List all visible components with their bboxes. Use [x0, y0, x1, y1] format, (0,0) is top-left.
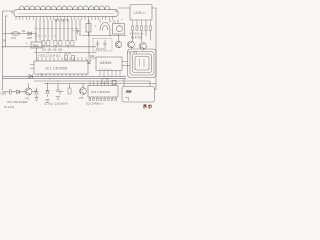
svg-text:IC2 CD4060: IC2 CD4060	[91, 90, 110, 94]
display tube DS1 body	[14, 10, 118, 17]
svg-text:9 10 11 12 13 14 15 1: 9 10 11 12 13 14 15 1	[38, 55, 61, 57]
loop inner bar 1	[139, 59, 141, 67]
small box U2	[86, 24, 91, 33]
svg-text:abcdefg: abcdefg	[35, 36, 57, 38]
svg-text:JS20: JS20	[126, 92, 132, 94]
text labels	[1, 11, 146, 109]
diode VD1	[17, 90, 26, 94]
svg-text:LED□□: LED□□	[135, 11, 146, 15]
transistor VT5	[80, 88, 87, 95]
svg-text:NE555: NE555	[100, 61, 112, 65]
transistor emitter arrows	[29, 47, 145, 95]
timer IC3 NE555 box	[96, 57, 122, 71]
diode VD6 on bus	[29, 75, 33, 79]
zener VS1	[35, 88, 39, 98]
transistor VT1	[25, 84, 37, 96]
dashed filter box	[93, 39, 112, 52]
capacitor C8	[76, 29, 79, 35]
counter IC2 CD4060 box	[88, 86, 118, 98]
svg-text:VD5: VD5	[27, 37, 32, 40]
IC1 top pins	[38, 57, 86, 61]
capacitor C6	[96, 40, 99, 48]
svg-text:IC1 CD4055: IC1 CD4055	[46, 67, 68, 71]
op IC1 CD4055 box	[34, 61, 88, 74]
transistor VT2	[128, 41, 135, 48]
svg-text:C2 0.1µ C3 10µ/16V: C2 0.1µ C3 10µ/16V	[44, 103, 68, 106]
wire to regulator	[35, 34, 37, 43]
ground G3	[56, 97, 60, 100]
display grid arcs	[19, 6, 110, 10]
IC1 left pins	[30, 65, 34, 69]
resistor column R7	[141, 26, 143, 31]
diode VD5	[28, 32, 32, 36]
svg-text:220V: 220V	[1, 93, 7, 96]
red watermark logo	[144, 105, 152, 109]
LED box bottom pins	[133, 20, 151, 26]
wire LED box to right rail	[152, 8, 156, 84]
junction dots	[2, 11, 117, 93]
wire left horizontal feed	[3, 33, 37, 35]
svg-text:VT5: VT5	[79, 97, 84, 100]
wire 555 to loop	[122, 62, 130, 87]
display pin ticks	[16, 17, 113, 20]
resistor R10	[68, 88, 71, 94]
capacitor C7	[103, 40, 106, 48]
resistor pair row	[42, 41, 74, 46]
capacitor C1 mains	[10, 89, 17, 94]
wire display to LED box	[119, 7, 131, 9]
svg-text:7805: 7805	[32, 44, 39, 48]
regulator IC4 7805	[31, 42, 42, 48]
IC1 bottom pins	[38, 74, 86, 76]
resistor column R5	[132, 26, 134, 31]
display feed wires	[80, 20, 118, 36]
resistor column R6	[136, 26, 138, 31]
inductor L1 arch	[100, 22, 110, 30]
svg-text:12345: 12345	[99, 69, 112, 71]
svg-text:VD1~VD4 1N4007: VD1~VD4 1N4007	[7, 101, 28, 104]
LED indicator box	[130, 5, 152, 21]
svg-text:C4 C5: C4 C5	[64, 53, 71, 56]
svg-text:C1 0.47µ: C1 0.47µ	[4, 106, 15, 109]
transistor VT4	[115, 41, 121, 47]
wire stubs bottom components	[48, 84, 84, 89]
capacitor C3 electrolytic	[56, 87, 63, 95]
wire column x89	[89, 20, 96, 58]
long bus 1	[3, 75, 127, 77]
loop inner bar 2	[143, 59, 145, 67]
wire mains left	[3, 91, 10, 93]
IC2 top pins	[90, 81, 116, 86]
svg-text:BT 5870: BT 5870	[55, 18, 69, 22]
bus loop rect 1	[135, 57, 149, 71]
pin junction ticks	[35, 28, 77, 30]
long bus 3	[34, 81, 150, 87]
resistor column R9	[150, 26, 152, 31]
capacitor C5 box	[72, 56, 75, 61]
wire left rail 2	[6, 16, 8, 47]
IC2 bottom pins	[89, 97, 117, 100]
svg-text:IC2 CD4060 □□: IC2 CD4060 □□	[86, 103, 104, 106]
bus rail A y=46.8	[3, 46, 97, 48]
svg-text:4.7k: 4.7k	[11, 36, 17, 40]
small box J2	[112, 80, 116, 84]
long bus 2	[3, 78, 127, 80]
diode VD7	[87, 60, 90, 63]
bus rail B y=52.5	[34, 52, 96, 54]
svg-text:0.1µ 0.1µ: 0.1µ 0.1µ	[96, 49, 106, 51]
wire regulator out	[36, 48, 38, 61]
zener VS2	[46, 88, 49, 97]
transistor VT3	[140, 43, 147, 50]
IC3 bottom pins	[100, 71, 120, 77]
small box J1	[102, 79, 107, 84]
resistor column R8	[145, 26, 147, 31]
svg-text:VT2 VT3: VT2 VT3	[127, 52, 138, 55]
bus loop rect 4	[128, 49, 157, 78]
svg-text:8.2k 5.1k 1k: 8.2k 5.1k 1k	[130, 33, 144, 36]
relay K1 box	[113, 24, 125, 35]
wire display left to rail	[3, 11, 14, 90]
ground G2	[46, 100, 50, 103]
wire mid horizontal	[82, 30, 126, 42]
bus loop rect 2	[133, 54, 152, 73]
svg-text:10k 10k 10k 10k: 10k 10k 10k 10k	[42, 48, 63, 51]
display segment pin wires	[36, 20, 76, 41]
capacitor C4 box	[65, 56, 68, 61]
svg-text:VT1: VT1	[25, 98, 30, 101]
long bus 4	[44, 84, 156, 90]
wires transistor columns	[133, 31, 151, 42]
svg-text:R12: R12	[90, 55, 95, 58]
ground G1	[35, 98, 39, 101]
label box bottom right	[122, 87, 155, 103]
fuse F1	[12, 32, 20, 35]
label box notch	[125, 98, 129, 101]
bus loop rect 3	[130, 52, 154, 76]
svg-text:R6 R7 R8: R6 R7 R8	[131, 36, 142, 39]
